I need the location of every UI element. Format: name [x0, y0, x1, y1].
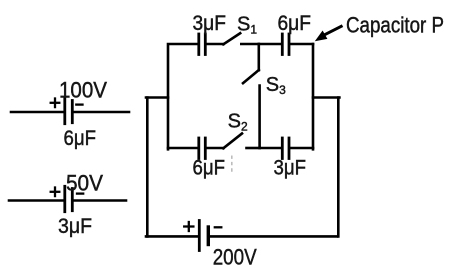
- wire: top branch from 6uF to right corner: [290, 43, 313, 46]
- svg-text:S1: S1: [237, 13, 257, 36]
- svg-text:50V: 50V: [66, 171, 103, 196]
- wire: standalone capacitor C1 left lead: [11, 111, 63, 114]
- capacitor 3uF bottom plates: [282, 138, 289, 159]
- wire: lower branch from node to 3uF: [260, 147, 281, 150]
- wire: standalone capacitor C1 right lead: [74, 111, 129, 114]
- svg-text:6μF: 6μF: [64, 127, 97, 150]
- wire: outer loop right vertical: [337, 98, 340, 237]
- wire: lower branch left segment: [168, 147, 198, 150]
- polarity + of battery: [184, 222, 193, 231]
- switch S3 bottom lead: [258, 86, 261, 149]
- wire: inner loop right vertical: [312, 44, 315, 149]
- wire: top branch from node to 6uF: [259, 43, 281, 46]
- battery 200V short plate (-): [207, 227, 210, 245]
- capacitor C1 plates (6uF 100V): [65, 98, 73, 123]
- arrow pointing to capacitor P: [315, 26, 343, 42]
- polarity - of C2: [77, 192, 83, 194]
- polarity - of battery: [215, 226, 222, 228]
- svg-text:3μF: 3μF: [193, 12, 227, 35]
- svg-text:100V: 100V: [59, 77, 107, 102]
- wire: standalone capacitor C2 left lead: [9, 199, 63, 202]
- svg-text:6μF: 6μF: [193, 157, 226, 180]
- capacitor C2 plates (3uF 50V): [65, 186, 73, 211]
- wire: lower branch from 3uF to right corner: [290, 147, 313, 150]
- polarity + of C1: [51, 99, 60, 108]
- wire: top branch between 3uF and switch S1: [207, 43, 224, 46]
- svg-text:200V: 200V: [213, 244, 257, 269]
- battery 200V long plate (+): [198, 221, 201, 251]
- wire: standalone capacitor C2 right lead: [74, 199, 126, 202]
- wire: inner loop top, left segment: [168, 44, 198, 149]
- svg-text:S3: S3: [266, 74, 286, 97]
- polarity - of C1: [76, 103, 82, 105]
- capacitor 6uF bottom plates: [199, 138, 206, 159]
- svg-text:S2: S2: [228, 110, 248, 133]
- svg-text:6μF: 6μF: [278, 12, 312, 35]
- switch S3 top lead: [257, 44, 260, 70]
- wire: bottom, battery left lead: [146, 235, 198, 238]
- polarity + of C2: [51, 188, 60, 197]
- switch S3 blade: [243, 70, 259, 83]
- wire: lower branch from S2 contact to node (S3 bottom): [247, 147, 260, 150]
- switch S2 blade: [223, 134, 242, 149]
- wire: right stub joining inner loop to outer loop: [313, 96, 339, 99]
- capacitor 3uF top plates: [199, 34, 206, 55]
- capacitor 6uF top plates (capacitor P): [282, 34, 289, 55]
- svg-text:Capacitor P: Capacitor P: [346, 13, 444, 38]
- wire: top branch from S1 contact to node (S3 tap): [241, 43, 258, 46]
- wire: bottom, battery right lead: [210, 235, 338, 238]
- wire: left stub joining outer loop to inner loop: [146, 96, 168, 99]
- svg-text:3μF: 3μF: [58, 215, 92, 238]
- wire: outer loop left vertical: [146, 98, 149, 237]
- faint dashed guide below S2: [231, 156, 233, 173]
- wire: lower branch between 6uF and switch S2: [207, 147, 224, 150]
- svg-text:3μF: 3μF: [274, 157, 307, 180]
- switch S1 blade: [223, 33, 240, 44]
